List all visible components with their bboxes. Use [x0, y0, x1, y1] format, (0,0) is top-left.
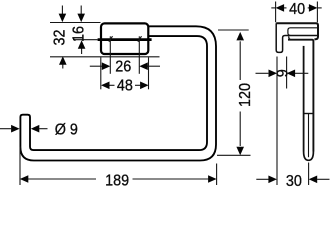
svg-text:30: 30 — [286, 172, 302, 189]
svg-text:16: 16 — [70, 26, 88, 42]
svg-text:48: 48 — [117, 77, 133, 95]
svg-text:40: 40 — [289, 0, 305, 18]
svg-text:120: 120 — [236, 83, 254, 107]
svg-text:9: 9 — [274, 69, 292, 77]
svg-text:32: 32 — [51, 29, 69, 45]
svg-text:189: 189 — [105, 172, 129, 189]
svg-text:26: 26 — [115, 58, 131, 76]
svg-text:Ø 9: Ø 9 — [55, 121, 78, 139]
